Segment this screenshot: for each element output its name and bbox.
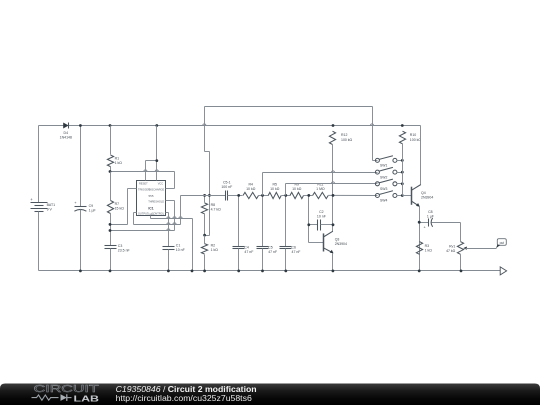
wire — [228, 195, 243, 197]
node VCC junction dots on rail — [79, 124, 82, 127]
svg-text:SW2: SW2 — [380, 175, 387, 179]
svg-text:2N3904: 2N3904 — [421, 195, 433, 199]
svg-text:47 nF: 47 nF — [268, 250, 277, 254]
logo CIRCUIT LAB — [32, 384, 100, 404]
svg-text:C8: C8 — [428, 210, 433, 214]
op-amp timer IC1 555 box — [137, 181, 166, 217]
capacitor C1 10nF on control pin — [163, 213, 185, 271]
wire — [282, 195, 291, 197]
svg-text:100 kΩ: 100 kΩ — [410, 138, 422, 142]
transistor Q4 2N3904 — [403, 126, 434, 271]
resistor R1 1k — [107, 126, 122, 172]
wire SW3 feed from C6 node — [286, 182, 376, 196]
capacitor C9 1uF — [74, 126, 95, 271]
svg-text:C6: C6 — [292, 245, 297, 249]
svg-text:9 V: 9 V — [47, 208, 53, 212]
svg-text:SW1: SW1 — [380, 164, 387, 168]
wire base drop from filter — [307, 194, 323, 243]
potentiometer Rv1 47k — [446, 223, 467, 271]
svg-text:R12: R12 — [341, 133, 347, 137]
wire VCC top rail — [39, 124, 421, 126]
capacitor C3 23.5nF — [105, 244, 130, 270]
switch SW4 — [375, 191, 403, 203]
svg-text:C2: C2 — [319, 210, 324, 214]
wire wiper to out flag — [466, 248, 497, 250]
resistor R12 100k — [329, 131, 352, 231]
svg-text:10 kΩ: 10 kΩ — [292, 187, 302, 191]
output terminal arrow — [500, 267, 506, 275]
svg-text:555: 555 — [148, 194, 153, 198]
svg-text:http://circuitlab.com/cu325z7u: http://circuitlab.com/cu325z7u58ts6 — [116, 393, 252, 403]
svg-text:1 kΩ: 1 kΩ — [211, 248, 219, 252]
svg-text:1 µF: 1 µF — [89, 209, 96, 213]
wire GND pin to ground — [151, 216, 193, 271]
svg-text:BAT1: BAT1 — [47, 203, 56, 207]
svg-text:10 nF: 10 nF — [176, 248, 185, 252]
svg-text:R1: R1 — [115, 156, 120, 160]
svg-text:IC1: IC1 — [148, 207, 153, 211]
svg-text:47 nF: 47 nF — [292, 250, 301, 254]
footer text — [116, 384, 257, 403]
svg-text:1N4148: 1N4148 — [60, 135, 72, 139]
svg-text:R2: R2 — [211, 244, 216, 248]
switch SW1 — [373, 160, 376, 162]
wire VCC + RESET tie — [146, 126, 159, 181]
svg-text:1 MΩ: 1 MΩ — [316, 187, 325, 191]
wire R1 bottom to discharge — [109, 170, 175, 189]
svg-text:Rv1: Rv1 — [449, 244, 455, 248]
diode D4 1N4148 — [60, 123, 72, 140]
svg-text:15 kΩ: 15 kΩ — [115, 206, 125, 210]
battery BAT1 — [30, 126, 55, 271]
svg-text:RESET: RESET — [139, 182, 148, 186]
svg-text:4.7 kΩ: 4.7 kΩ — [211, 207, 222, 211]
svg-text:C1: C1 — [176, 243, 181, 247]
wire — [328, 194, 375, 196]
wire filter line — [181, 195, 226, 197]
transistor Q3 2N3904 — [323, 231, 347, 270]
svg-text:1 kΩ: 1 kΩ — [425, 248, 433, 252]
svg-text:Q4: Q4 — [421, 191, 426, 195]
svg-text:10 kΩ: 10 kΩ — [270, 187, 280, 191]
svg-text:C9: C9 — [89, 204, 94, 208]
svg-text:SW3: SW3 — [380, 187, 387, 191]
svg-text:LAB: LAB — [74, 393, 100, 403]
resistor R2 1k — [201, 236, 218, 271]
svg-text:out: out — [500, 241, 505, 245]
svg-text:1 kΩ: 1 kΩ — [115, 161, 123, 165]
wire discharge stub — [166, 188, 175, 190]
svg-text:2N3904: 2N3904 — [335, 242, 347, 246]
resistor R10 100k — [399, 131, 421, 195]
capacitor C5-1 100nF — [221, 180, 232, 200]
svg-text:Q3: Q3 — [335, 238, 340, 242]
resistor R7 15k — [107, 172, 124, 246]
svg-text:CONTROL: CONTROL — [152, 211, 165, 215]
svg-text:10 kΩ: 10 kΩ — [246, 187, 256, 191]
svg-text:SW4: SW4 — [380, 199, 387, 203]
node flag out — [496, 239, 506, 249]
resistor R3 1k — [416, 242, 432, 255]
switch SW3 — [375, 179, 403, 191]
capacitor C8 1uF — [418, 210, 461, 230]
wire trigger to R7 bottom — [109, 189, 137, 226]
resistor R11 1M — [313, 183, 329, 199]
wire threshold wrap — [109, 201, 175, 232]
wire top tap line — [205, 107, 373, 236]
svg-text:THRESHOLD: THRESHOLD — [148, 199, 164, 203]
svg-text:23.5 nF: 23.5 nF — [118, 249, 130, 253]
wire — [259, 195, 269, 197]
svg-text:10 nF: 10 nF — [317, 215, 326, 219]
svg-text:C4: C4 — [244, 245, 249, 249]
svg-text:47 nF: 47 nF — [244, 250, 253, 254]
svg-text:47 kΩ: 47 kΩ — [446, 249, 456, 253]
wire — [304, 195, 313, 197]
switch SW2 — [375, 167, 403, 179]
wire output wrap to filter — [134, 196, 181, 225]
svg-text:DISCHARGE: DISCHARGE — [149, 187, 165, 191]
svg-text:C5-1: C5-1 — [223, 180, 231, 184]
svg-text:R3: R3 — [425, 244, 430, 248]
resistor R5 10k — [268, 183, 281, 199]
svg-text:VCC: VCC — [158, 182, 164, 186]
capacitor C5 47nF — [257, 194, 278, 271]
resistor R8 4.7k — [201, 194, 221, 237]
svg-text:C5: C5 — [268, 245, 273, 249]
capacitor C4 47nF — [233, 194, 254, 271]
capacitor C2 10nF — [307, 210, 334, 230]
svg-text:100 kΩ: 100 kΩ — [341, 138, 353, 142]
svg-text:100 nF: 100 nF — [221, 185, 232, 189]
wire ground rail — [39, 270, 501, 273]
svg-text:R10: R10 — [410, 133, 416, 137]
resistor R9 10k — [290, 183, 304, 199]
wire SW2 feed from C5 node — [263, 171, 376, 196]
svg-text:R7: R7 — [115, 202, 120, 206]
svg-text:R8: R8 — [211, 203, 216, 207]
svg-text:C3: C3 — [118, 244, 123, 248]
resistor R4 10k — [243, 183, 259, 199]
capacitor C6 47nF — [280, 194, 301, 271]
svg-text:1 µF: 1 µF — [427, 214, 434, 218]
